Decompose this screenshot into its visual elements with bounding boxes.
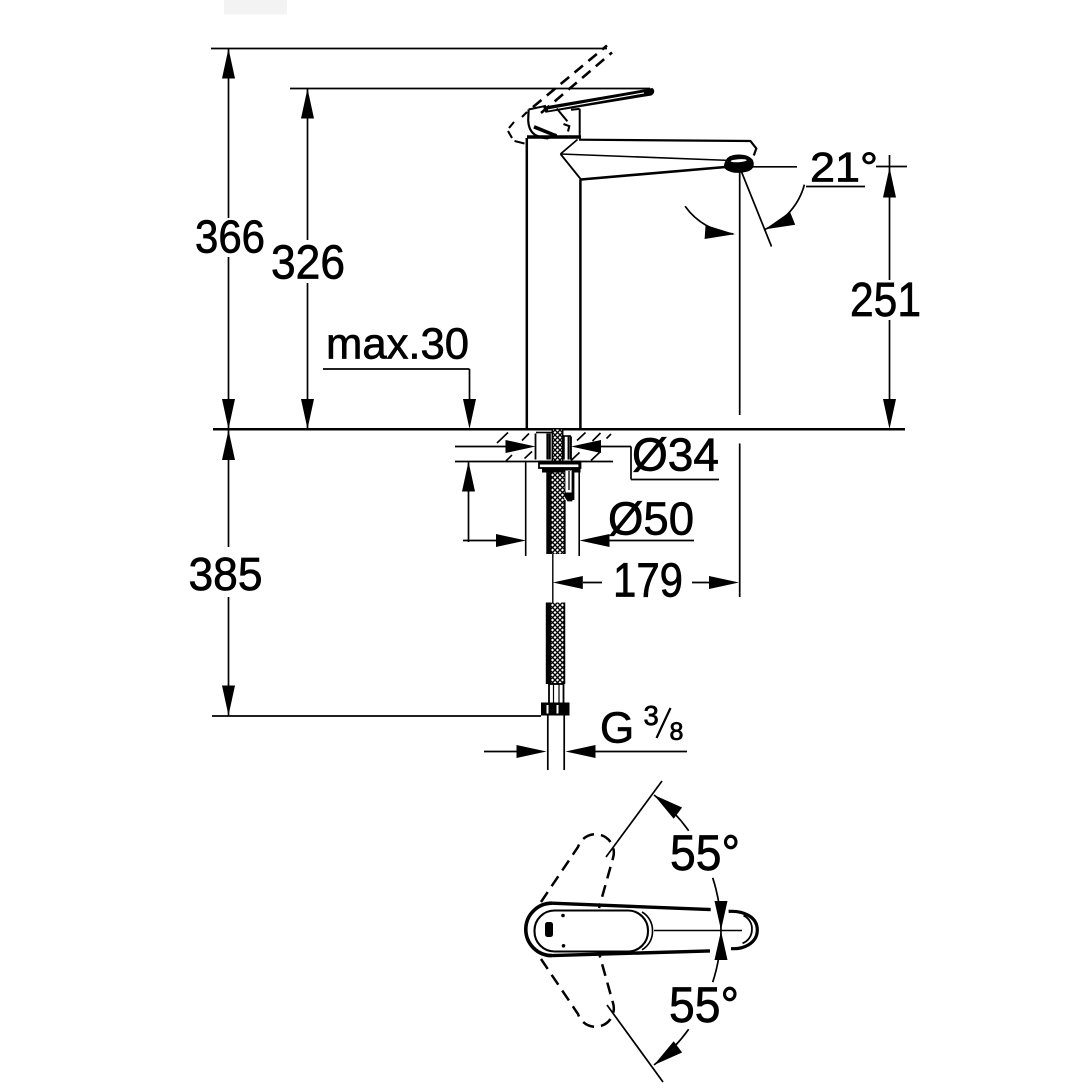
dimension 179 bbox=[583, 582, 709, 584]
21 deg arc left bbox=[685, 206, 733, 234]
spout bbox=[561, 140, 757, 180]
braided hose in deck bbox=[552, 430, 563, 462]
dia50 extension lines bbox=[526, 462, 580, 556]
21 degree reference line bbox=[746, 167, 907, 187]
svg-text:251: 251 bbox=[850, 274, 921, 327]
top view handle outer bbox=[526, 903, 757, 955]
top view dots bbox=[561, 914, 565, 918]
bottom reference line 385 level bbox=[212, 715, 541, 717]
braided hose lower segment bbox=[551, 603, 564, 685]
svg-text:385: 385 bbox=[189, 548, 263, 600]
top view: 55 deg radial line lower bbox=[607, 1005, 663, 1082]
fixing bolt bbox=[565, 471, 574, 501]
svg-text:179: 179 bbox=[613, 555, 683, 608]
svg-text:55°: 55° bbox=[669, 977, 739, 1033]
dimension 366 bbox=[228, 49, 230, 429]
top view: 55 deg radial line upper bbox=[606, 781, 662, 857]
svg-text:max.30: max.30 bbox=[326, 320, 469, 369]
hose break centerline bbox=[552, 554, 554, 603]
G3/8 threaded pipe bbox=[548, 716, 564, 771]
faucet handle lever blade (side view) bbox=[543, 88, 654, 113]
top view handle tip bbox=[729, 911, 758, 948]
svg-text:G: G bbox=[600, 704, 634, 753]
svg-text:55°: 55° bbox=[670, 825, 740, 881]
braided hose upper segment bbox=[552, 473, 565, 555]
locknut dark band bbox=[542, 468, 581, 473]
svg-text:8: 8 bbox=[670, 718, 684, 746]
dimension 251 bbox=[889, 155, 891, 399]
shank right side bbox=[563, 436, 571, 460]
faucet column bbox=[527, 137, 581, 429]
vertical line from aerator bbox=[739, 167, 741, 597]
55 deg upper arc bbox=[654, 795, 689, 831]
svg-text:366: 366 bbox=[195, 211, 265, 263]
shank tube left bbox=[536, 433, 553, 460]
svg-text:Ø34: Ø34 bbox=[632, 429, 719, 481]
dimension G 3/8 bbox=[484, 751, 687, 753]
dimension 385 bbox=[228, 430, 230, 716]
cartridge cap rotated dashed bbox=[508, 112, 569, 144]
top view tick mark bbox=[545, 922, 553, 937]
svg-text:21°: 21° bbox=[810, 144, 878, 191]
deck slab hatching bbox=[497, 433, 611, 462]
hose crimp collar bbox=[549, 684, 564, 705]
svg-text:3: 3 bbox=[644, 700, 659, 731]
water stream line 21 deg bbox=[740, 167, 772, 246]
hose end nut bbox=[541, 703, 570, 716]
dimension Dia 34 bbox=[455, 447, 719, 480]
dimension Dia 50 bbox=[463, 540, 694, 542]
cartridge neck bbox=[571, 109, 580, 138]
washer under deck bbox=[539, 462, 581, 469]
svg-text:326: 326 bbox=[271, 237, 345, 290]
55 deg lower arc bbox=[654, 1029, 689, 1065]
top view handle inner capsule bbox=[535, 911, 649, 952]
aerator bbox=[725, 155, 753, 172]
svg-text:Ø50: Ø50 bbox=[608, 493, 694, 545]
reference line 366 level bbox=[211, 48, 607, 50]
dimension 326 bbox=[307, 89, 309, 429]
21 deg arc right bbox=[765, 185, 805, 230]
top view centerline bbox=[654, 930, 742, 932]
cartridge cap bbox=[528, 106, 567, 139]
watermark remnant bbox=[224, 0, 287, 15]
lever raised dashed bbox=[533, 46, 612, 114]
top view handle rotated dashed lower bbox=[541, 953, 614, 1027]
reference line 326 level bbox=[290, 88, 650, 90]
deck / mounting surface line bbox=[213, 428, 905, 431]
slab bottom line bbox=[455, 461, 613, 463]
top view handle rotated dashed upper bbox=[541, 834, 614, 908]
